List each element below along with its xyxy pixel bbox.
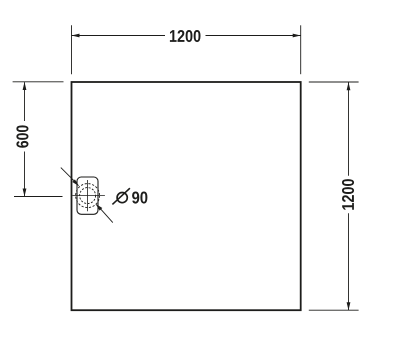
- left dimension 600: bottom arrowhead: [23, 189, 27, 197]
- right dimension 1200: top arrowhead: [347, 82, 351, 90]
- drain inner dashed circle Ø90: [80, 188, 96, 204]
- top dimension 1200: right arrowhead: [293, 34, 301, 38]
- top dimension 1200: left extension line: [71, 25, 73, 74]
- right dimension 1200: bottom extension line: [309, 309, 359, 311]
- top dimension 1200: dimension line right segment: [206, 35, 301, 37]
- right dimension 1200: value label (rotated): [342, 179, 354, 210]
- leader line lower-right: [101, 209, 113, 223]
- left dimension 600: bottom extension line: [14, 196, 63, 198]
- diameter symbol slash: [112, 188, 129, 204]
- drain outer dashed circle: [76, 184, 100, 208]
- right dimension 1200: top extension line: [309, 81, 359, 83]
- leader line upper-left: [61, 168, 74, 181]
- drain cover plate (rounded rectangle): [77, 177, 98, 214]
- top dimension 1200: right extension line: [300, 25, 302, 74]
- right dimension 1200: dimension line lower segment: [348, 213, 350, 310]
- right dimension 1200: dimension line upper segment: [348, 82, 350, 175]
- leader arrowhead lower-right: [95, 204, 102, 211]
- diameter symbol circle: [117, 193, 127, 203]
- top dimension 1200: value label: [170, 30, 201, 42]
- top dimension 1200: left arrowhead: [72, 34, 80, 38]
- left dimension 600: value label (rotated): [16, 125, 28, 147]
- drain center line horizontal: [73, 195, 105, 197]
- left dimension 600: dimension line upper segment: [24, 82, 26, 121]
- left dimension 600: dimension line lower segment: [24, 152, 26, 197]
- left dimension 600: top extension line: [13, 81, 64, 83]
- drain size label 90: [132, 192, 147, 204]
- top dimension 1200: dimension line left segment: [72, 35, 166, 37]
- drain center line vertical: [87, 180, 89, 211]
- right dimension 1200: bottom arrowhead: [347, 302, 351, 310]
- leader arrowhead upper-left: [72, 179, 79, 186]
- left dimension 600: top arrowhead: [23, 82, 27, 90]
- shower tray outline: [72, 82, 301, 310]
